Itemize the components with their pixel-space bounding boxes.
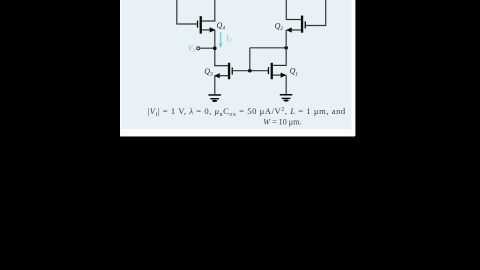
wire Q2 drain vertical: [285, 0, 287, 20]
label I2: [225, 33, 232, 44]
svg-text:2: 2: [280, 26, 283, 32]
ground right: [280, 94, 293, 102]
junction V3 node: [213, 46, 217, 50]
junction drain node: [284, 46, 288, 50]
value label device parameters line 1: [148, 106, 346, 118]
svg-text:W = 10 μm.: W = 10 μm.: [263, 117, 301, 126]
wire Q4 drain vertical: [214, 0, 216, 22]
svg-text:4: 4: [222, 25, 225, 32]
svg-text:|Vt| = 1 V, λ = 0, μnCox = 5: |Vt| = 1 V, λ = 0, μnCox = 50 μA/V2, L =…: [148, 106, 346, 118]
ground left: [208, 94, 221, 102]
transistor Q2: [286, 16, 306, 33]
svg-text:1: 1: [295, 71, 298, 77]
wire Q2 source to Q1 drain: [285, 30, 287, 66]
wire Q2 gate loop right vertical: [325, 0, 327, 26]
transistor Q1: [268, 63, 287, 79]
svg-text:2: 2: [229, 38, 232, 44]
wire V3 lead: [200, 47, 215, 49]
transistor Q3: [214, 63, 233, 79]
value label device parameters line 2: [263, 117, 301, 126]
label V3: [188, 43, 196, 54]
wire Q3 source to ground: [214, 76, 216, 95]
label Q1: [290, 67, 299, 78]
wire gate node vertical: [249, 48, 251, 71]
wire Q3 gate to Q1 gate: [232, 70, 268, 72]
svg-text:3: 3: [193, 48, 196, 54]
wire Q4 gate loop left vertical: [176, 0, 178, 24]
wire Q1 source to ground: [285, 75, 287, 94]
label Q4: [217, 21, 226, 32]
wire Q4 source to Q3 drain: [214, 30, 216, 66]
label Q2: [275, 21, 284, 32]
transistor Q4: [197, 16, 216, 33]
node V3 input terminal: [197, 47, 200, 50]
svg-text:3: 3: [209, 72, 213, 78]
current arrow I2: [219, 32, 223, 48]
label Q3: [204, 67, 213, 78]
wire Q4 gate: [176, 23, 197, 25]
wire gate node to drain node: [250, 47, 286, 49]
junction gate node: [248, 69, 252, 73]
wire Q2 gate: [306, 25, 327, 27]
